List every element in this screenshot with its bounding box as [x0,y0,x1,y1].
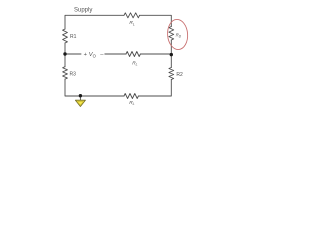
svg-text:RL: RL [132,60,137,66]
resistor R3 [63,67,68,79]
red ellipse highlight [167,19,189,51]
ground stub [79,96,81,100]
node dot left [63,52,66,55]
resistor RL middle [126,52,140,57]
wire left lower [64,54,66,67]
wire bottom left [65,79,124,96]
wire top right segment [140,15,172,26]
svg-text:Supply: Supply [74,7,92,13]
resistor RL bottom [124,94,138,99]
ground symbol [75,100,85,106]
wire left mid [65,43,81,54]
svg-text:R1: R1 [70,34,77,40]
svg-text:RL: RL [129,20,134,26]
svg-text:RD: RD [176,33,182,39]
wire right upper [170,55,172,68]
wire bottom right [139,80,172,97]
svg-text:VO: VO [89,52,97,58]
svg-text:+: + [84,52,88,58]
node dot ground [79,94,82,97]
svg-text:R3: R3 [70,71,77,77]
svg-text:RL: RL [129,100,134,106]
resistor R2 [169,68,174,80]
resistor RL top [124,13,140,18]
svg-text:R2: R2 [176,72,183,78]
wire right mid [170,40,172,55]
wire middle after label [105,53,126,55]
resistor RD circled [169,27,174,41]
wire top left segment [65,15,124,29]
resistor R1 [63,29,68,43]
wire middle to right node [141,53,172,55]
svg-text:–: – [100,52,104,58]
node dot right [170,53,173,56]
